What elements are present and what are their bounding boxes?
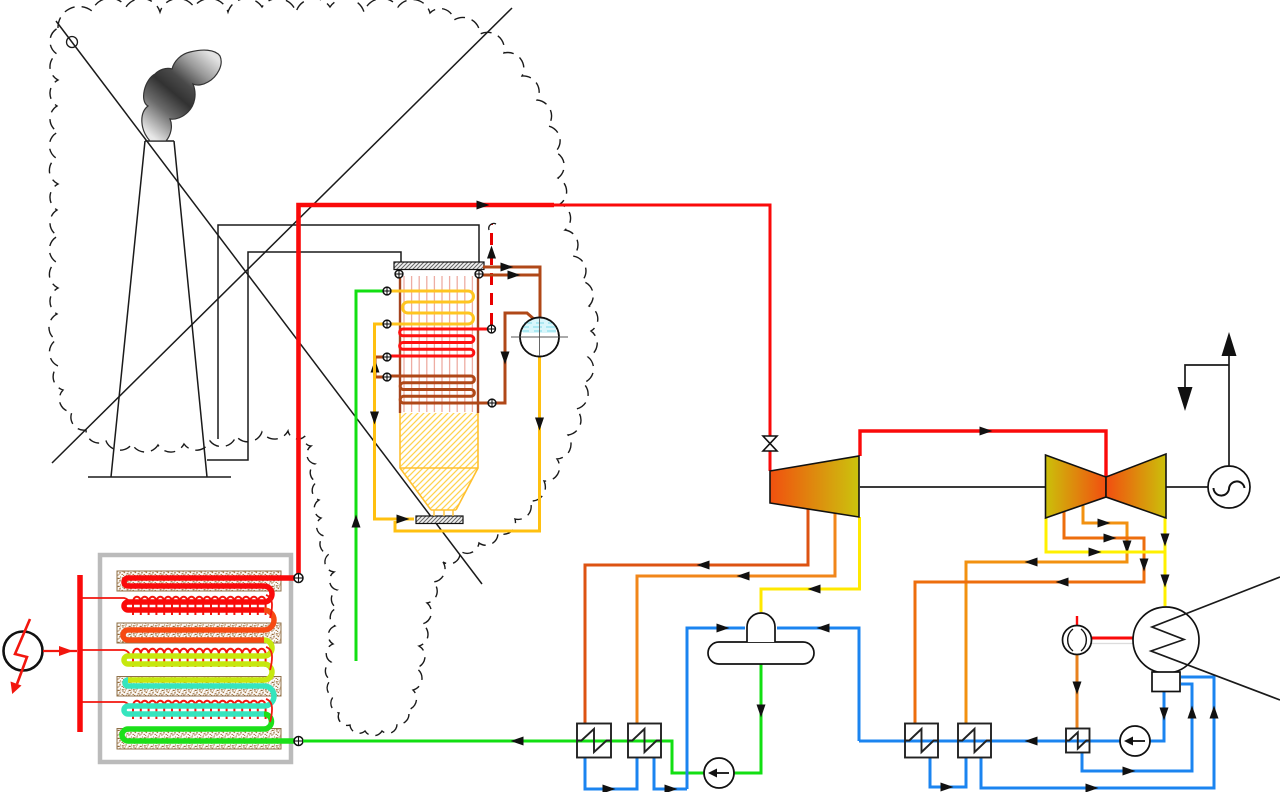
flue gas duct inner <box>207 252 401 460</box>
boiler top header <box>394 262 484 270</box>
HP extraction 1 (dark orange) <box>585 508 808 723</box>
old feedwater line (green) <box>356 291 383 661</box>
drum riser pipes <box>483 267 540 319</box>
feedwater heater H5 <box>1066 729 1090 753</box>
decorative curl on cloud corner <box>67 37 78 48</box>
superheater coil (red) <box>391 329 487 356</box>
storage discharge port (green) <box>294 737 303 746</box>
smoke plume <box>142 50 221 141</box>
steam inlet valve <box>763 436 777 451</box>
evaporator coil (brown) <box>391 376 488 403</box>
HP turbine <box>770 456 859 517</box>
electric heater windings <box>133 597 266 615</box>
boiler connection ports <box>395 270 403 278</box>
feedwater heater H2 <box>628 724 661 758</box>
hotwell <box>1152 672 1180 692</box>
H4 drain (blue) <box>981 677 1214 788</box>
connector between evaporator and superheater ports <box>375 357 383 377</box>
new main steam line from storage (thick red) <box>299 205 555 578</box>
H1 drain (blue) <box>585 757 637 789</box>
HP exhaust to deaerator (yellow) <box>761 517 860 612</box>
feedwater heater H4 <box>958 724 991 758</box>
boiler walls <box>399 274 401 413</box>
drum downcomer pipe <box>496 313 535 403</box>
thermal storage vessel <box>100 555 291 762</box>
H2 drain (blue) <box>654 757 687 789</box>
flue gas duct outer <box>218 225 479 439</box>
cloud outline (area to be replaced) <box>49 0 598 736</box>
steam drum <box>511 318 568 357</box>
feedwater heater H1 <box>577 724 611 758</box>
boiler hopper hatch <box>400 413 478 510</box>
LP turbine (double flow) <box>1046 455 1107 518</box>
electric busbar <box>77 575 83 732</box>
yellow circulation loop <box>375 324 415 519</box>
feedwater line (blue) <box>859 740 1150 743</box>
LP exhaust yellow lines <box>1046 518 1164 552</box>
H3 drain (blue) <box>930 757 966 787</box>
main condensate/feed line (green) <box>303 741 704 773</box>
gland steam condenser <box>1063 626 1092 655</box>
storage charge port (red) <box>294 574 303 583</box>
deaerator blue inlets <box>687 628 745 789</box>
turbine shaft <box>859 486 1045 488</box>
condenser <box>1133 607 1199 673</box>
feedwater heater H3 <box>905 724 938 758</box>
deaerator tank <box>708 642 814 664</box>
generator power export <box>1185 354 1229 467</box>
gland condenser orange drain <box>1076 655 1079 728</box>
pump condensate <box>704 758 734 788</box>
deaerator dome <box>747 613 775 642</box>
LP extraction to H3 (dark orange) <box>915 511 1144 723</box>
grate <box>416 516 463 524</box>
economizer coil (yellow) <box>391 291 474 324</box>
heater winding end leads <box>266 595 272 618</box>
H5 drain (blue) <box>1082 684 1192 771</box>
crossover steam line (red) <box>860 431 1106 477</box>
generator <box>1208 466 1250 508</box>
chimney stack <box>88 141 231 477</box>
boiler tube bank <box>404 276 472 412</box>
HP extraction 2 (orange) <box>637 512 835 723</box>
storage slabs <box>117 571 281 591</box>
LP extraction to H4 (orange) <box>966 505 1127 723</box>
old main steam line (dashed, removed) <box>490 224 493 325</box>
cross-out diagonal B <box>52 8 512 463</box>
storage serpentine pipe <box>124 578 296 586</box>
condensate from hotwell <box>1150 692 1164 741</box>
LP exhaust duct lines <box>1151 577 1280 700</box>
pump main condensate <box>1120 726 1150 756</box>
electric power source <box>4 632 43 671</box>
gland condenser red link <box>1076 616 1078 627</box>
cross-out diagonal A <box>56 21 482 584</box>
